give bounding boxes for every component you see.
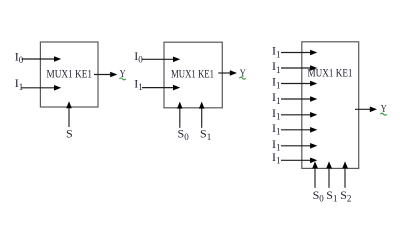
svg-text:S1: S1	[200, 127, 211, 143]
svg-text:I1: I1	[272, 121, 281, 137]
wire select S1	[328, 166, 330, 188]
wire input row 8	[281, 159, 312, 161]
mux U1 body	[40, 42, 98, 107]
wire select S	[68, 106, 70, 128]
wire select S0	[314, 166, 316, 188]
svg-text:S0: S0	[178, 127, 190, 143]
wire output Y	[355, 108, 372, 110]
wire output Y	[218, 72, 232, 74]
wire input row 7	[281, 145, 312, 147]
svg-text:I1: I1	[134, 77, 143, 93]
squiggle under Y	[239, 77, 245, 79]
squiggle under Y	[119, 78, 125, 80]
svg-text:I1: I1	[272, 90, 281, 106]
wire input I1	[142, 87, 175, 89]
wire select S2	[344, 166, 346, 188]
mux U2 body	[164, 42, 222, 108]
wire select S0	[179, 106, 181, 128]
svg-text:I0: I0	[134, 49, 143, 65]
svg-text:MUX1 KE1: MUX1 KE1	[47, 67, 93, 81]
svg-text:S0: S0	[313, 188, 325, 204]
wire input row 5	[281, 114, 312, 116]
wire output Y	[94, 74, 112, 76]
svg-text:I1: I1	[272, 75, 281, 91]
wire input row 3	[281, 83, 312, 85]
svg-text:I1: I1	[272, 44, 281, 60]
mux U3 body	[302, 42, 359, 169]
wire input I0	[22, 58, 57, 60]
svg-text:I0: I0	[15, 50, 24, 66]
wire input I0	[142, 58, 176, 60]
svg-text:I1: I1	[272, 59, 281, 75]
wire input row 1	[281, 52, 312, 54]
wire input row 4	[281, 98, 312, 100]
wire input row 6	[281, 129, 312, 131]
wire input row 2	[281, 67, 312, 69]
svg-text:S: S	[66, 127, 73, 141]
svg-text:MUX1 KE1: MUX1 KE1	[171, 67, 214, 81]
wire select S1	[201, 106, 203, 128]
svg-text:I1: I1	[272, 106, 281, 122]
svg-text:S2: S2	[340, 188, 351, 204]
svg-text:I1: I1	[15, 76, 23, 92]
svg-text:S1: S1	[326, 188, 337, 204]
wire input I1	[22, 87, 57, 89]
squiggle under Y	[380, 113, 386, 115]
